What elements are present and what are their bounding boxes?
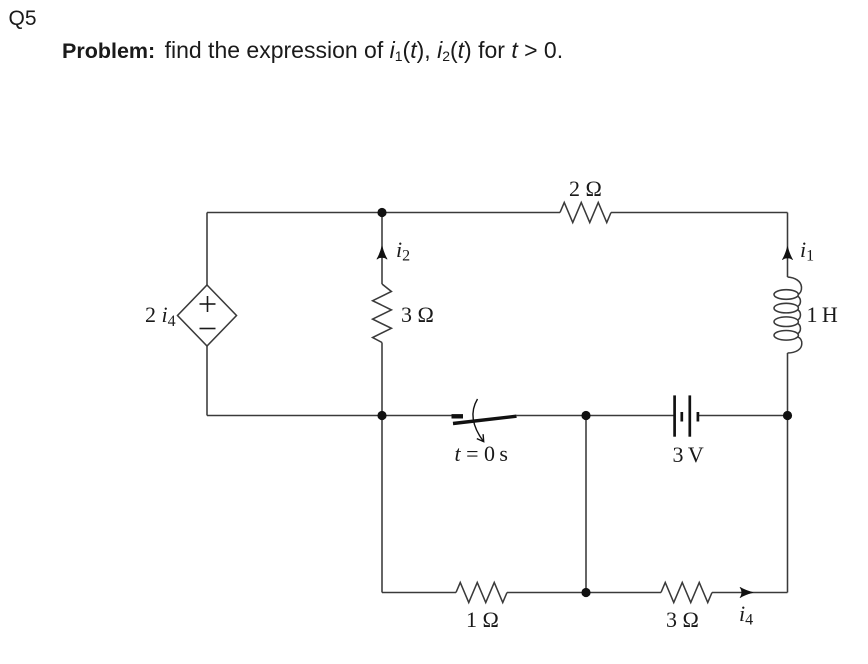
svg-text:i4: i4 (739, 601, 753, 629)
svg-text:1 H: 1 H (807, 302, 838, 327)
wire 3ohm branch bottom (381, 343, 383, 416)
plus sign inside source (200, 296, 216, 329)
svg-text:1 Ω: 1 Ω (466, 607, 499, 632)
svg-text:3 Ω: 3 Ω (401, 302, 434, 327)
battery V1 short plate 2 (697, 412, 700, 422)
wire right vertical below inductor (787, 353, 789, 416)
switch SW1 blade (453, 416, 517, 423)
switch SW1 arrowhead (477, 434, 484, 441)
wire top horizontal right of R 2ohm (611, 212, 788, 214)
dependent source U1 diamond (178, 285, 237, 346)
svg-text:2 i4: 2 i4 (145, 302, 176, 330)
wire left vertical top (source top lead) (206, 213, 208, 286)
resistor R 1ohm zigzag (456, 583, 507, 603)
battery V1 short plate 1 (680, 412, 683, 422)
wire top horizontal left of R 2ohm (207, 212, 560, 214)
wire 3ohm branch top (381, 213, 383, 285)
minus sign inside source (200, 328, 216, 330)
current arrow i4 head (740, 587, 753, 597)
wire middle vertical (585, 416, 587, 593)
node D mid-right (787.5,415.5) (783, 411, 792, 420)
wire bottom horizontal right (712, 592, 788, 594)
wire middle horizontal left (node A to switch) (207, 415, 452, 417)
svg-text:Problem: find the expression o: Problem: find the expression of i1(t), i… (62, 37, 563, 64)
switch SW1 contact stub (452, 414, 464, 418)
svg-text:t = 0 s: t = 0 s (455, 441, 509, 466)
wire right vertical top (above inductor) (787, 213, 789, 278)
battery V1 long plate 1 (673, 395, 676, 436)
resistor R 3ohm bottom zigzag (661, 583, 712, 603)
wire bottom-left vertical (381, 416, 383, 593)
inductor L1 coil (774, 277, 802, 353)
svg-text:Q5: Q5 (9, 7, 37, 30)
current arrow i1 head (782, 247, 792, 260)
svg-text:2 Ω: 2 Ω (569, 176, 602, 201)
resistor R 3ohm vertical zigzag (373, 284, 392, 343)
svg-text:3 Ω: 3 Ω (666, 607, 699, 632)
resistor 2ohm zigzag (560, 203, 611, 223)
svg-text:i1: i1 (800, 237, 814, 265)
wire middle horizontal (node B to battery) (586, 415, 675, 417)
node A top (382,212.5) (377, 208, 386, 217)
node E bottom-center (586,592.5) (581, 588, 590, 597)
battery V1 long plate 2 (688, 395, 691, 436)
current arrow i2 head (377, 246, 387, 259)
wire right vertical lower (787, 416, 789, 593)
switch SW1 opening arrow arc (473, 399, 484, 442)
wire bottom horizontal left (382, 592, 456, 594)
svg-text:3 V: 3 V (673, 442, 704, 467)
wire left vertical bottom (source bottom lead) (206, 346, 208, 416)
wire middle horizontal (switch to node B) (517, 415, 587, 417)
wire bottom horizontal middle (507, 592, 661, 594)
node C mid-center (586,415.5) (581, 411, 590, 420)
node B mid-left (382,415.5) (377, 411, 386, 420)
wire middle horizontal (battery to node C) (698, 415, 788, 417)
svg-text:i2: i2 (396, 237, 410, 265)
